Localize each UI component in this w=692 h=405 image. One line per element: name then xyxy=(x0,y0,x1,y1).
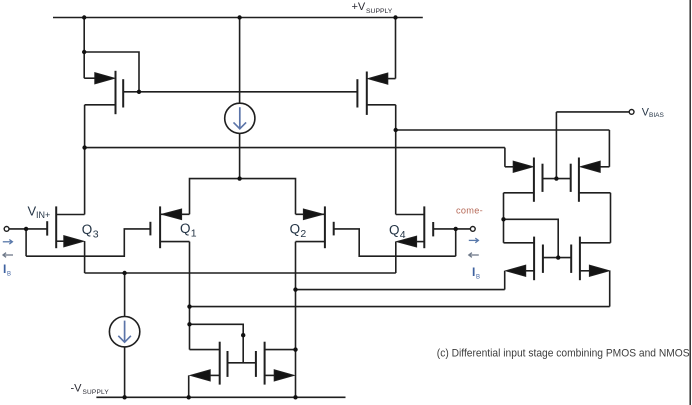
wire Q3 Q4 common source line xyxy=(85,272,396,274)
wire Q2 drain column xyxy=(295,242,297,398)
wire Q3 source down xyxy=(84,241,86,273)
wire mirror gate line xyxy=(228,362,256,364)
wire cascode mid to lower gates xyxy=(504,219,559,257)
wire mirror gate tap xyxy=(190,324,244,363)
current source I2 bottom xyxy=(109,317,139,347)
wire output cross line to Q2 gate xyxy=(334,229,456,256)
label -Vsupply xyxy=(71,383,110,397)
wire Q4 gate to output terminal xyxy=(433,228,470,230)
wire left mirror source to rail xyxy=(188,375,190,397)
label IB right xyxy=(472,265,480,281)
svg-text:SUPPLY: SUPPLY xyxy=(366,8,393,15)
svg-text:Q: Q xyxy=(290,222,301,237)
transistor M10 cascode NMOS lower-right xyxy=(571,237,610,281)
label Q3 xyxy=(82,222,99,241)
wire left PMOS source drop from rail xyxy=(83,18,85,79)
svg-text:(c) Differential input stage c: (c) Differential input stage combining P… xyxy=(437,348,690,360)
svg-text:B: B xyxy=(476,274,480,280)
wire input node down xyxy=(25,229,27,256)
svg-text:B: B xyxy=(7,271,11,277)
svg-text:2: 2 xyxy=(300,228,306,240)
wire cascode gate line lower xyxy=(543,257,571,259)
svg-text:Q: Q xyxy=(180,221,191,236)
wire cascode left mid link xyxy=(503,193,505,243)
svg-text:I: I xyxy=(3,262,6,276)
wire left PMOS drain column xyxy=(84,105,86,215)
svg-text:+V: +V xyxy=(352,1,366,13)
border right edge of figure xyxy=(689,0,691,405)
wire mirror node line xyxy=(190,306,610,308)
wire left PMOS gate loop xyxy=(84,52,139,92)
wire PMOS pair gate line xyxy=(123,91,357,93)
svg-text:SUPPLY: SUPPLY xyxy=(83,389,110,396)
transistor M6 top-right PMOS xyxy=(357,72,395,115)
wire -V supply rail xyxy=(96,396,345,398)
current source I1 top xyxy=(225,103,255,133)
annotation output current arrows right xyxy=(469,238,479,243)
wire lower cascode right source down xyxy=(609,271,611,307)
terminal Vbias xyxy=(629,110,634,115)
wire bottom current source to rail xyxy=(124,347,126,397)
wire Vbias lead xyxy=(556,111,629,113)
wire Vbias drop to cascode gates xyxy=(555,112,557,179)
wire lower cascode left source line xyxy=(296,289,505,291)
wire input cross line to Q1 gate xyxy=(26,229,150,256)
svg-text:IN+: IN+ xyxy=(36,210,50,220)
wire line B mid rail xyxy=(85,147,505,149)
wire lower cascode left source down xyxy=(504,271,506,290)
svg-text:come-: come- xyxy=(456,205,483,215)
annotation input current arrows left xyxy=(3,240,13,245)
svg-text:I: I xyxy=(472,265,475,279)
wire top current source feed xyxy=(239,18,241,104)
transistor M11 mirror NMOS left xyxy=(190,342,228,385)
transistor Q3 xyxy=(47,206,84,248)
wire output node down xyxy=(455,229,457,256)
wire right PMOS drain column xyxy=(395,105,397,215)
wire right PMOS source drop from rail xyxy=(395,18,397,79)
svg-text:BIAS: BIAS xyxy=(649,112,664,119)
transistor Q1 xyxy=(150,206,189,248)
label IB left xyxy=(3,262,11,278)
transistor M12 mirror NMOS right xyxy=(256,342,296,385)
wire cascode gate line upper xyxy=(543,178,571,180)
wire input terminal to Q3 gate xyxy=(9,228,47,230)
wire Q4 source down xyxy=(395,242,397,273)
wire top current source tail xyxy=(239,133,241,178)
svg-text:Q: Q xyxy=(389,223,400,238)
svg-text:-V: -V xyxy=(71,383,83,395)
svg-text:Q: Q xyxy=(82,222,93,237)
transistor Q4 xyxy=(396,206,433,248)
label Vbias xyxy=(642,106,665,119)
wire +V supply rail xyxy=(53,17,423,19)
svg-text:1: 1 xyxy=(191,228,197,240)
label Q2 xyxy=(290,222,307,241)
label Q4 xyxy=(389,223,406,242)
svg-text:3: 3 xyxy=(93,228,99,240)
wire Q1 drain column xyxy=(189,242,191,350)
label +Vsupply xyxy=(352,1,393,15)
transistor M7 cascode PMOS upper-left xyxy=(504,158,543,202)
wire tail bracket to Q1 Q2 xyxy=(190,179,296,215)
wire bottom current source feed xyxy=(124,273,126,317)
wire line A corner down to cascode source xyxy=(608,130,610,167)
label Vin+ xyxy=(28,204,51,221)
transistor M8 cascode PMOS upper-right xyxy=(571,158,611,202)
transistor M5 top-left PMOS xyxy=(84,71,123,114)
wire line A xyxy=(396,129,610,131)
wire cascode right mid link xyxy=(610,193,612,243)
wire line B corner down to cascode source xyxy=(504,148,506,167)
svg-text:4: 4 xyxy=(400,229,406,241)
terminal output xyxy=(470,227,475,232)
transistor Q2 xyxy=(296,206,334,248)
transistor M9 cascode NMOS lower-left xyxy=(504,237,543,281)
terminal input Vin+ xyxy=(4,227,9,232)
label Q1 xyxy=(180,221,197,240)
